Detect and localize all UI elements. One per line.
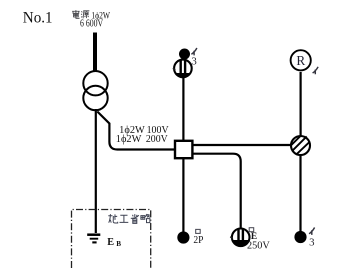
ground EB (B-type earth) <box>87 235 100 243</box>
svg-text:B: B <box>116 240 121 248</box>
joint box (VVF) <box>175 141 192 158</box>
label イ (bottom switch) <box>309 228 315 235</box>
transformer T <box>83 71 107 110</box>
dashed box 施工省略 <box>72 210 151 269</box>
wire: outlet box up to lamp R <box>300 72 302 136</box>
switch イ 3-way (top) <box>179 49 190 60</box>
wire: joint box down to 2P switch <box>182 158 184 232</box>
label 電源 1φ2W <box>72 10 89 18</box>
wire: KIP 6600V feeder (thick) <box>93 33 97 72</box>
wire: joint box to 250V receptacle (200V) <box>192 154 240 229</box>
svg-text:6 600V: 6 600V <box>80 19 104 30</box>
switch イ 3-way (bottom right) <box>294 231 306 243</box>
label イ (top switch) <box>191 48 197 55</box>
receptacle 250V E (bottom) <box>230 229 249 247</box>
switch ロ 2P (bottom middle) <box>177 231 189 243</box>
svg-text:No.1: No.1 <box>23 7 53 26</box>
outlet box (hatched) <box>291 135 310 155</box>
svg-text:2P: 2P <box>193 235 203 246</box>
wire: outlet box down to 3-way switch <box>299 155 301 232</box>
svg-text:E: E <box>107 237 114 248</box>
wire: joint box up to receptacle outlet <box>182 77 184 141</box>
lamp receptacle R <box>291 50 311 70</box>
label イ (lamp) <box>313 67 319 74</box>
receptacle outlet (top middle) <box>173 60 192 79</box>
svg-text:250V: 250V <box>247 241 270 252</box>
svg-text:3: 3 <box>191 56 196 68</box>
svg-text:R: R <box>296 53 305 68</box>
label ロ (2P switch) <box>196 229 201 233</box>
label 施工省略 <box>108 214 150 223</box>
wire: transformer secondary to joint box <box>97 112 174 150</box>
wire: transformer to EB ground <box>95 109 97 233</box>
label ロ (250V receptacle) <box>249 228 254 232</box>
wire: joint box to outlet box (100V) <box>192 144 290 146</box>
svg-text:3: 3 <box>309 236 314 248</box>
